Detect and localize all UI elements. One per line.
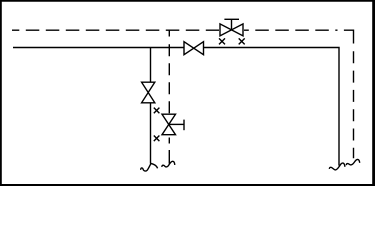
line break symbol (dashed branch) — [162, 161, 175, 167]
closed-port mark X (below left end of valve V2) — [219, 38, 225, 44]
closed-port mark X (lower left of valve V4) — [154, 136, 160, 142]
wire: dashed branch from header down at x=169.3 (to valve V4) — [168, 30, 170, 114]
handwheel bar of valve V4 — [183, 120, 185, 131]
closed-port mark X (below right end of valve V2) — [239, 38, 245, 44]
wire: dashed right riser — [353, 51, 355, 158]
line break symbol (dashed right riser) — [346, 159, 359, 165]
wire: dashed branch below valve V4 into break — [168, 138, 170, 164]
wire: dashed header line (horizontal, left of valve V2) — [12, 29, 219, 31]
wire: solid branch down at x=150.5 (tee to valve V3) — [150, 48, 152, 83]
stem of valve V2 — [231, 19, 233, 30]
closed-port mark X (upper left of valve V4) — [154, 108, 160, 114]
wire: dashed header line (right of valve V2, corner, down right side) — [244, 29, 338, 31]
border frame — [0, 0, 375, 2]
line break symbol (solid right riser) — [329, 163, 344, 170]
handwheel bar of valve V2 — [224, 18, 239, 20]
wire: solid main line (left of valve V1) — [13, 47, 184, 49]
wire: solid branch below valve V3 into break — [150, 103, 152, 164]
valve V4 (gate valve with side handwheel, vertical) — [162, 114, 176, 135]
wire: dashed header corner piece — [344, 30, 354, 43]
valve V2 (gate valve with rising stem on dashed header) — [220, 24, 243, 36]
line break symbol (solid branch) — [141, 164, 158, 172]
valve V1 (gate valve on solid main line) — [184, 42, 204, 55]
valve V3 (gate valve, vertical) — [142, 82, 155, 103]
stem of valve V4 — [169, 123, 184, 125]
wire: solid main line (right of valve V1, corner, down right side) — [204, 48, 340, 166]
